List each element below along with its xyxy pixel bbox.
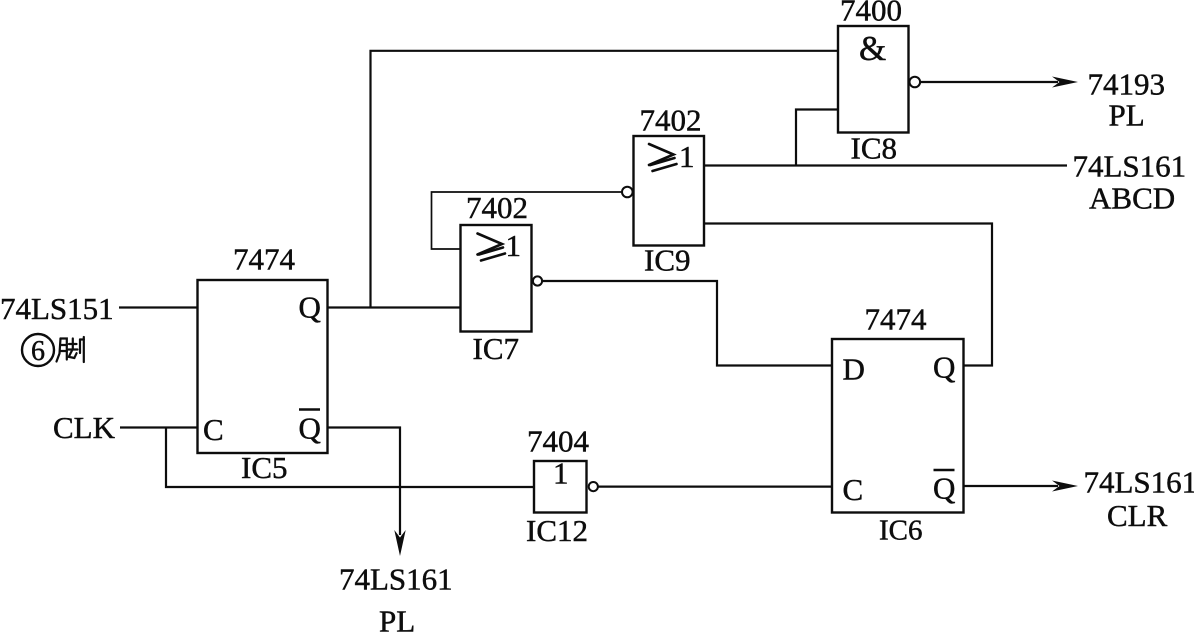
wire IC9 output to IC7 input 1 — [432, 192, 623, 249]
svg-text:6: 6 — [31, 336, 45, 367]
svg-text:7402: 7402 — [466, 190, 528, 225]
svg-text:CLK: CLK — [53, 410, 116, 445]
arrowhead to 74LS161 CLR — [1052, 481, 1078, 492]
wire IC5 Q output to IC7 input — [328, 306, 461, 308]
circled 6 pin symbol — [22, 334, 54, 366]
svg-text:Q: Q — [299, 290, 321, 325]
svg-text:PL: PL — [1109, 98, 1145, 133]
svg-text:PL: PL — [379, 604, 415, 633]
svg-text:IC12: IC12 — [526, 513, 588, 548]
svg-text:Q: Q — [933, 471, 955, 506]
inverter IC12 (7404) box — [534, 461, 587, 513]
wire IC6 Qbar output to 74LS161 CLR (arrow) — [964, 485, 1059, 487]
gate IC7 (7402) box — [461, 225, 532, 332]
gate symbol GE of IC7 (greater-equal 1) — [478, 234, 506, 261]
svg-text:Q: Q — [933, 350, 955, 385]
flip-flop IC6 (7474) box — [832, 339, 964, 513]
wire IC12 output to IC6 C input — [598, 486, 832, 488]
overbar Qbar of IC5 — [299, 408, 320, 411]
wire IC5 Qbar output down to 74LS161 PL (arrow) — [328, 428, 401, 536]
svg-text:IC8: IC8 — [851, 131, 898, 166]
svg-text:7404: 7404 — [527, 424, 590, 459]
bubble IC7 output — [533, 276, 542, 285]
svg-text:1: 1 — [553, 456, 569, 491]
wire IC6 Q output to IC9 input 2 — [704, 224, 992, 366]
bubble IC9 output — [622, 187, 633, 198]
svg-text:74LS161: 74LS161 — [1073, 149, 1187, 184]
gate symbol GE of IC9 (greater-equal 1) — [649, 144, 677, 171]
svg-text:CLR: CLR — [1107, 498, 1168, 533]
hanzi jiao (pin) character — [57, 337, 84, 362]
wire 74LS161 ABCD net to IC9 input — [704, 164, 1067, 166]
svg-text:74LS161: 74LS161 — [1084, 465, 1194, 500]
bubble IC12 output — [589, 482, 598, 491]
wire CLK input to IC5 C — [120, 426, 198, 428]
gate IC9 (7402) box — [634, 136, 705, 246]
wire IC8 output to 74193 PL (arrow) — [920, 81, 1058, 83]
svg-text:74193: 74193 — [1088, 67, 1166, 102]
svg-text:1: 1 — [506, 228, 522, 263]
svg-text:D: D — [843, 352, 865, 387]
gate IC8 (7400) box — [838, 26, 909, 133]
svg-text:1: 1 — [679, 139, 695, 174]
svg-text:7474: 7474 — [865, 302, 928, 337]
svg-text:7400: 7400 — [840, 0, 902, 28]
svg-text:IC9: IC9 — [644, 243, 691, 278]
bubble IC8 output — [910, 77, 921, 88]
svg-text:74LS161: 74LS161 — [339, 562, 453, 597]
svg-text:IC5: IC5 — [241, 450, 288, 485]
svg-text:7402: 7402 — [640, 103, 702, 138]
svg-text:IC6: IC6 — [879, 515, 923, 547]
wire IC7 output to IC6 D input — [542, 281, 832, 366]
overbar Qbar of IC6 — [934, 469, 955, 472]
svg-text:C: C — [843, 472, 864, 507]
svg-text:74LS151: 74LS151 — [0, 291, 114, 326]
flip-flop IC5 (7474) box — [198, 280, 328, 453]
wire 74LS151 input to IC5 D — [119, 306, 198, 308]
wire branch IC5 Q up and across to IC8 input 1 — [371, 51, 839, 308]
wire branch ABCD net to IC8 input 2 — [796, 110, 838, 166]
svg-text:&: & — [859, 29, 886, 68]
arrowhead to 74193 PL — [1052, 77, 1078, 88]
svg-text:C: C — [203, 412, 224, 447]
wire CLK branch down to IC12 input — [166, 428, 534, 488]
arrowhead down to 74LS161 PL — [394, 530, 405, 556]
svg-text:IC7: IC7 — [473, 331, 520, 366]
svg-text:7474: 7474 — [233, 242, 296, 277]
svg-text:Q: Q — [299, 411, 321, 446]
svg-text:ABCD: ABCD — [1089, 181, 1175, 216]
